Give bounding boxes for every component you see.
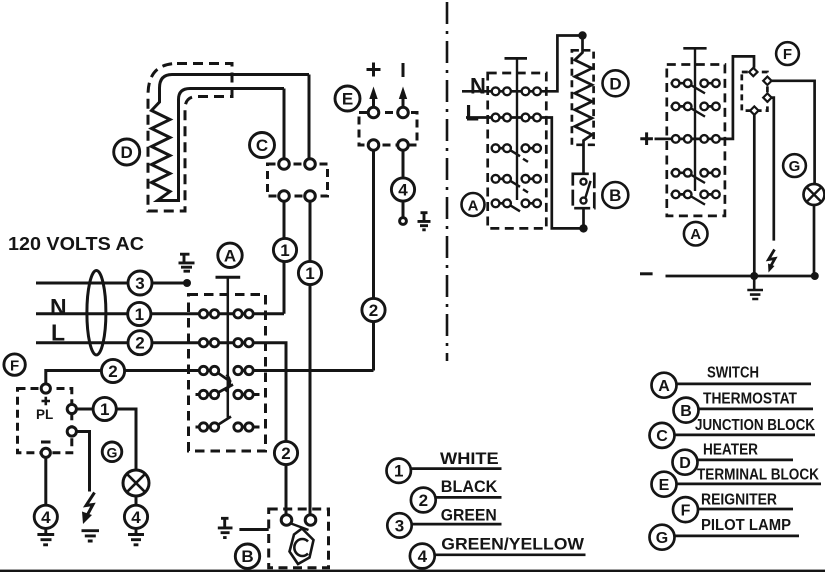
svg-text:HEATER: HEATER xyxy=(703,441,758,458)
svg-text:D: D xyxy=(121,143,133,162)
svg-text:SWITCH: SWITCH xyxy=(707,364,759,381)
svg-text:1: 1 xyxy=(305,264,314,283)
svg-text:2: 2 xyxy=(419,491,428,510)
svg-text:2: 2 xyxy=(369,301,378,320)
svg-text:B: B xyxy=(609,186,621,205)
svg-text:GREEN: GREEN xyxy=(441,506,497,524)
svg-text:L: L xyxy=(466,101,479,126)
svg-text:N: N xyxy=(470,74,486,99)
svg-text:A: A xyxy=(690,226,701,243)
svg-text:2: 2 xyxy=(135,334,144,353)
svg-text:TERMINAL BLOCK: TERMINAL BLOCK xyxy=(697,466,820,483)
svg-text:A: A xyxy=(224,246,236,265)
svg-text:G: G xyxy=(107,444,118,460)
svg-text:N: N xyxy=(50,294,67,320)
svg-text:1: 1 xyxy=(280,241,289,260)
svg-text:1: 1 xyxy=(100,400,109,419)
svg-text:F: F xyxy=(681,502,691,519)
svg-text:THERMOSTAT: THERMOSTAT xyxy=(703,390,797,407)
svg-text:B: B xyxy=(680,403,692,420)
svg-text:3: 3 xyxy=(395,516,404,535)
svg-text:1: 1 xyxy=(394,462,403,481)
svg-text:E: E xyxy=(342,90,353,109)
svg-text:1: 1 xyxy=(135,305,144,324)
svg-text:C: C xyxy=(256,136,268,155)
svg-text:A: A xyxy=(658,378,670,395)
svg-text:4: 4 xyxy=(418,547,428,566)
svg-text:4: 4 xyxy=(398,181,408,200)
svg-text:C: C xyxy=(656,428,668,445)
svg-text:D: D xyxy=(679,455,691,472)
svg-text:WHITE: WHITE xyxy=(440,450,499,468)
svg-text:GREEN/YELLOW: GREEN/YELLOW xyxy=(441,536,584,554)
svg-text:PILOT LAMP: PILOT LAMP xyxy=(701,517,791,534)
svg-text:2: 2 xyxy=(281,444,290,463)
svg-text:G: G xyxy=(656,530,668,547)
svg-text:3: 3 xyxy=(135,274,144,293)
svg-text:G: G xyxy=(789,158,801,175)
svg-text:4: 4 xyxy=(131,508,141,527)
svg-text:E: E xyxy=(659,477,670,494)
svg-text:F: F xyxy=(783,46,792,63)
svg-text:120 VOLTS AC: 120 VOLTS AC xyxy=(8,234,144,254)
svg-text:REIGNITER: REIGNITER xyxy=(701,491,777,508)
svg-text:4: 4 xyxy=(41,508,51,527)
svg-text:PL: PL xyxy=(36,407,53,422)
svg-text:A: A xyxy=(468,198,479,215)
svg-text:BLACK: BLACK xyxy=(441,478,498,496)
svg-text:B: B xyxy=(241,547,253,566)
svg-text:2: 2 xyxy=(108,362,117,381)
svg-text:L: L xyxy=(51,320,65,346)
svg-text:JUNCTION BLOCK: JUNCTION BLOCK xyxy=(695,417,816,434)
svg-text:F: F xyxy=(10,358,19,375)
svg-text:D: D xyxy=(609,74,621,93)
